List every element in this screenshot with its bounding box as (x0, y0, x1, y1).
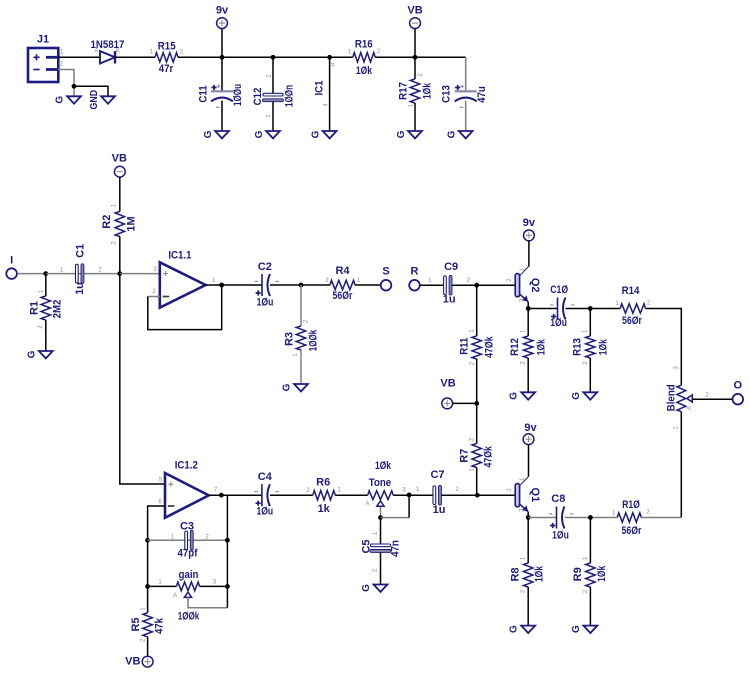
ground (571, 625, 597, 633)
wire C12 bottom lead (272, 102, 274, 132)
pin labels Blend (674, 366, 710, 430)
wire R15 to R16 (178, 56, 353, 58)
svg-text:1Øk: 1Øk (356, 65, 373, 77)
pin labels R6 (306, 488, 341, 495)
svg-text:2M2: 2M2 (51, 300, 63, 319)
svg-text:1Øk: 1Øk (375, 460, 392, 472)
svg-text:47Øk: 47Øk (483, 445, 495, 467)
svg-text:1ØØn: 1ØØn (284, 85, 296, 107)
junction C8 R9 node (588, 515, 593, 520)
junction R7 C7 node (475, 493, 480, 498)
svg-text:R2: R2 (101, 215, 113, 229)
resistor R13 (571, 336, 609, 358)
pin labels R11 (469, 329, 475, 366)
wire R17 top lead (414, 57, 416, 79)
wire C13 bottom lead (465, 101, 467, 131)
wire C12 top lead (272, 57, 274, 94)
wire R5 to VB (147, 637, 149, 656)
node R port (409, 266, 420, 291)
wire R6 to Tone (335, 494, 368, 496)
svg-text:R1: R1 (29, 301, 41, 315)
pin labels R4 (325, 278, 361, 284)
svg-text:gain: gain (179, 569, 199, 581)
svg-text:1u: 1u (433, 504, 446, 516)
svg-text:VB: VB (112, 152, 127, 164)
svg-text:S: S (382, 266, 389, 278)
wire IC1.1 feedback (148, 285, 222, 330)
svg-text:1Øu: 1Øu (550, 317, 567, 329)
potentiometer Blend (666, 384, 693, 411)
junction IC1.2 out (219, 493, 224, 498)
pin labels R2 (112, 203, 118, 245)
svg-text:VB: VB (125, 655, 140, 667)
svg-text:1u: 1u (74, 282, 86, 295)
wire IC1.1 out (206, 284, 262, 286)
svg-text:47r: 47r (159, 63, 174, 75)
pin labels R17 (409, 73, 425, 108)
resistor R10 (617, 499, 642, 537)
svg-text:47n: 47n (389, 540, 401, 557)
ground (509, 392, 536, 400)
ground (254, 130, 280, 138)
wire I port to R1 node (17, 273, 46, 275)
svg-text:VB: VB (440, 378, 455, 390)
svg-text:1Øu: 1Øu (257, 296, 274, 308)
wire C4 to R6 (270, 494, 313, 496)
wire 9v drop (221, 29, 223, 58)
svg-text:A: A (94, 49, 98, 55)
svg-text:9v: 9v (216, 5, 229, 17)
wire R8 bottom lead (527, 587, 529, 626)
junction VB rail (413, 55, 418, 60)
transistor Q2 (515, 267, 541, 302)
wire Q2 base node to R11 (476, 285, 478, 336)
resistor R15 (155, 40, 178, 75)
wire Q2 emitter stub (527, 302, 529, 309)
wire C13 drop (465, 57, 467, 90)
svg-text:C5: C5 (361, 539, 373, 553)
svg-text:Tone: Tone (369, 477, 391, 489)
svg-text:C3: C3 (180, 520, 194, 532)
power VB (407, 5, 422, 29)
ground (571, 392, 597, 400)
capacitor C4 (254, 471, 279, 517)
wire wiper loop right (381, 517, 410, 519)
wire R14 to Blend (646, 309, 682, 386)
pin labels R9 (583, 556, 589, 593)
wire Tone to C7 (393, 494, 433, 496)
transistor Q1 (515, 477, 541, 512)
wire R9 bottom lead (589, 587, 591, 626)
wire VB to R2 (119, 177, 121, 211)
resistor R17 (398, 79, 434, 103)
svg-text:G: G (55, 96, 66, 104)
junction VB node (474, 401, 479, 406)
svg-text:Q2: Q2 (529, 278, 541, 293)
wire J1+ to D1 (58, 56, 100, 58)
wire Blend to R10 corner (680, 412, 682, 518)
junction Q1 emitter node (526, 515, 531, 520)
svg-text:56Ør: 56Ør (333, 290, 353, 302)
svg-text:R3: R3 (284, 332, 296, 346)
svg-text:C7: C7 (430, 469, 444, 481)
op-amp IC1.1 (160, 250, 206, 308)
svg-text:R5: R5 (130, 617, 142, 631)
junction C3 left (145, 538, 150, 543)
svg-text:G: G (396, 130, 407, 138)
pin labels Q2 (507, 267, 526, 302)
pin labels R12 (521, 329, 527, 365)
junction input node (117, 271, 122, 276)
wire C5 bottom lead (380, 552, 382, 584)
pin labels R16 (348, 49, 381, 56)
svg-text:A: A (173, 593, 177, 599)
junction C10 R13 node (588, 306, 593, 311)
capacitor C7 (430, 469, 445, 516)
svg-text:A: A (365, 502, 369, 508)
svg-text:1Øk: 1Øk (598, 338, 610, 355)
ground (311, 130, 337, 138)
resistor R3 (284, 326, 320, 351)
ground (101, 96, 115, 103)
svg-text:C9: C9 (444, 261, 458, 273)
wire C7 to Q1 base (442, 494, 516, 496)
svg-text:G: G (361, 584, 372, 592)
resistor R2 (101, 212, 137, 237)
svg-text:9v: 9v (523, 217, 536, 229)
pin labels R10 (612, 510, 651, 517)
junction Q2 emitter node (526, 306, 531, 311)
svg-text:I: I (10, 254, 13, 266)
svg-text:G: G (311, 130, 322, 138)
svg-text:G: G (254, 130, 265, 138)
svg-text:K: K (116, 49, 120, 55)
wire Blend wiper to O (692, 398, 732, 400)
svg-text:VB: VB (407, 5, 422, 17)
svg-text:J1: J1 (37, 34, 49, 46)
ground (55, 96, 81, 104)
junction gain left (145, 584, 150, 589)
svg-text:56Ør: 56Ør (622, 525, 642, 537)
wire Q2 emitter to C10 (528, 308, 557, 310)
pin labels IC1 (324, 62, 337, 107)
svg-text:Q1: Q1 (529, 488, 541, 503)
pin labels R8 (521, 556, 527, 593)
wire gain right down (226, 586, 228, 607)
wire node down to IC1.2 +in (120, 274, 165, 484)
svg-text:R: R (411, 266, 419, 278)
pin labels R13 (583, 329, 589, 365)
power VB (440, 378, 455, 409)
svg-text:R17: R17 (398, 82, 410, 100)
svg-text:C1: C1 (75, 244, 87, 258)
node I port (6, 254, 17, 279)
capacitor C1 (74, 244, 86, 295)
svg-text:R14: R14 (622, 285, 641, 297)
svg-text:1k: 1k (317, 503, 330, 515)
resistor R4 (330, 265, 355, 302)
resistor R11 (458, 336, 495, 359)
junction C12 rail (271, 55, 276, 60)
pin labels R3 (293, 319, 310, 357)
wire R13 bottom lead (589, 358, 591, 392)
node O port (733, 379, 744, 404)
resistor R1 (29, 296, 64, 320)
svg-text:IC1.1: IC1.1 (168, 250, 191, 262)
svg-text:C13: C13 (441, 85, 453, 103)
pin labels C12 (266, 74, 273, 118)
wire IC1.1 -in left (148, 296, 160, 298)
svg-text:C4: C4 (258, 471, 273, 483)
resistor R12 (509, 336, 547, 358)
pin labels R15 (150, 50, 184, 56)
pin labels R14 (615, 301, 651, 308)
wire R12 top lead (527, 309, 529, 337)
svg-text:G: G (203, 130, 214, 138)
junction IC1 rail (327, 55, 332, 60)
wire C2 to R4 node (270, 284, 330, 286)
svg-text:R6: R6 (316, 476, 330, 488)
svg-text:1Øk: 1Øk (533, 565, 545, 582)
svg-text:C2: C2 (258, 261, 272, 273)
wire out branch down (226, 495, 228, 540)
svg-text:R13: R13 (571, 338, 583, 356)
junction wiper C5 (378, 515, 383, 520)
wire Tone wiper drop (380, 507, 382, 518)
op-amp IC1.2 (165, 460, 209, 518)
svg-text:R9: R9 (572, 567, 584, 581)
power 9v (523, 422, 537, 445)
svg-text:C8: C8 (551, 493, 565, 505)
wire gain wiper loop (188, 597, 227, 607)
svg-text:R15: R15 (158, 40, 176, 52)
wire C3 line (148, 539, 228, 541)
power VB (112, 152, 127, 177)
capacitor C10 (550, 284, 575, 329)
svg-text:1ØØk: 1ØØk (178, 611, 200, 623)
ground GND label (89, 90, 100, 110)
pin labels C3 (171, 534, 210, 540)
wire to GND symbol (74, 86, 108, 96)
pin labels IC1.1 (152, 267, 216, 295)
svg-text:G: G (571, 392, 582, 400)
wire J1- to ground node (58, 70, 74, 97)
svg-text:1Øu: 1Øu (552, 530, 569, 542)
capacitor C13 (441, 85, 489, 108)
wire R10 to corner (641, 517, 681, 519)
ground (26, 350, 52, 358)
potentiometer gain (173, 569, 200, 623)
svg-text:47pf: 47pf (178, 547, 198, 559)
junction gain right (225, 584, 230, 589)
svg-text:1Øu: 1Øu (256, 506, 273, 518)
pin labels J1 (60, 50, 64, 68)
ground (361, 584, 387, 592)
wire R17 bottom lead (414, 103, 416, 131)
svg-text:1Øk: 1Øk (422, 82, 434, 99)
svg-text:1Øk: 1Øk (536, 338, 548, 355)
connector J1 (28, 34, 58, 83)
wire R4 to S (355, 284, 381, 286)
wire C8 to R9 node (565, 517, 618, 519)
pin labels R7 (469, 437, 475, 472)
wire VB node to R7 (476, 403, 478, 443)
ground (396, 130, 422, 138)
svg-text:1ØØu: 1ØØu (232, 84, 244, 106)
svg-text:1M: 1M (125, 216, 137, 231)
wire Q1 emitter stub (527, 512, 529, 518)
wire D1 to R15 (115, 56, 155, 58)
ground (447, 130, 473, 138)
wire R3 bottom lead (300, 350, 302, 384)
pin labels R1 (38, 289, 45, 329)
capacitor C12 (252, 85, 296, 107)
wire R8 top lead (527, 518, 529, 564)
svg-text:G: G (282, 383, 293, 391)
IC U1 power IC1 (314, 57, 330, 131)
capacitor C3 (178, 520, 198, 559)
wire R9 top lead (589, 518, 591, 564)
svg-text:56Ør: 56Ør (622, 315, 642, 327)
junction ground node (72, 84, 77, 89)
wire C3 right down (226, 540, 228, 586)
svg-text:G: G (447, 130, 458, 138)
potentiometer Tone (365, 460, 393, 508)
capacitor C5 (361, 539, 402, 556)
wire loop up (408, 495, 410, 518)
wire gain left lead (148, 585, 177, 587)
junction C2 R3 node (299, 283, 304, 288)
svg-text:IC1: IC1 (314, 80, 326, 95)
svg-text:47u: 47u (476, 86, 488, 103)
wire R1 bottom lead (45, 320, 47, 351)
wire 9v to Q2 collector (528, 241, 530, 267)
wire C5 top lead (380, 518, 382, 545)
svg-text:47Øk: 47Øk (484, 336, 496, 358)
diode D1 1N5817 (91, 39, 125, 64)
pin labels C9 (428, 278, 471, 284)
wire R5 top lead (147, 586, 149, 612)
pin labels D1 (94, 49, 120, 55)
pin labels C5 (373, 531, 379, 572)
ground (282, 383, 308, 391)
svg-text:C12: C12 (252, 88, 264, 106)
wire C11 bottom lead (221, 101, 223, 131)
svg-text:R7: R7 (459, 449, 471, 463)
wire R1 node to C1 to main node (46, 273, 120, 275)
svg-text:G: G (509, 625, 520, 633)
resistor R7 (459, 444, 495, 468)
ground (509, 625, 536, 633)
svg-text:Blend: Blend (666, 384, 678, 411)
wire gain right lead (200, 585, 228, 587)
resistor R5 (130, 613, 165, 637)
resistor R8 (509, 563, 545, 587)
power 9v (523, 217, 536, 241)
svg-text:A: A (687, 406, 693, 410)
wire R2 to node (119, 237, 121, 274)
svg-text:GND: GND (89, 90, 100, 110)
wire 9v to Q1 collector (528, 445, 530, 477)
svg-text:O: O (734, 379, 743, 391)
capacitor C9 (443, 261, 458, 305)
svg-text:47k: 47k (153, 617, 165, 634)
resistor R16 (353, 39, 375, 77)
svg-text:C11: C11 (198, 85, 210, 102)
svg-text:R16: R16 (355, 39, 373, 51)
wire C9 to Q2 base (452, 284, 515, 286)
pin labels IC1.2 (158, 478, 218, 506)
wire C11 top lead (221, 57, 223, 90)
pin labels Q1 (507, 477, 526, 512)
wire C10 to R13 node (566, 308, 621, 310)
junction 9v rail (220, 55, 225, 60)
junction IC1.1 out (219, 283, 224, 288)
svg-text:R1Ø: R1Ø (622, 499, 640, 511)
wire IC1.2 -in left (148, 506, 165, 586)
wire R13 top lead (589, 309, 591, 337)
pin labels C7 (416, 487, 460, 493)
resistor R14 (620, 285, 645, 327)
wire node to IC1.1 +in (120, 273, 160, 275)
wire R1 top lead (45, 274, 47, 296)
wire Q1 emitter to C8 (528, 517, 556, 519)
pin labels Tone (402, 488, 406, 494)
pin labels gain (158, 580, 217, 586)
svg-text:R12: R12 (509, 338, 521, 356)
wire VB to node (453, 402, 477, 404)
power 9v (216, 5, 229, 29)
svg-text:G: G (571, 625, 582, 633)
wire R16 to VB node (375, 56, 466, 58)
junction R1 node (43, 271, 48, 276)
svg-text:1u: 1u (443, 293, 456, 305)
svg-text:IC1.2: IC1.2 (175, 460, 198, 472)
svg-text:1Øk: 1Øk (596, 565, 608, 582)
power VB (125, 655, 153, 667)
svg-text:G: G (26, 350, 37, 358)
svg-text:C1Ø: C1Ø (550, 284, 568, 296)
wire R7 to Q1 base line (476, 468, 478, 496)
capacitor C2 (255, 261, 280, 309)
svg-text:G: G (509, 392, 520, 400)
wire R11 to VB node (476, 359, 478, 403)
ground (203, 130, 229, 138)
svg-text:R11: R11 (458, 338, 470, 355)
pin labels C1 (60, 267, 102, 273)
wire R12 bottom lead (527, 358, 529, 392)
svg-text:1ØØk: 1ØØk (307, 329, 319, 351)
node S port (381, 266, 392, 291)
capacitor C8 (549, 493, 574, 542)
resistor R6 (313, 476, 335, 514)
svg-text:R4: R4 (335, 265, 350, 277)
wire R port to C9 (420, 284, 444, 286)
wire IC1.2 out (209, 494, 262, 496)
svg-text:R8: R8 (509, 567, 521, 581)
junction Q2 base node (474, 283, 479, 288)
capacitor C11 (198, 84, 245, 107)
junction Tone right (407, 493, 412, 498)
pin labels R5 (140, 607, 146, 643)
svg-text:9v: 9v (524, 422, 537, 434)
wire VB drop (414, 29, 416, 58)
junction C3 right (225, 538, 230, 543)
resistor R9 (572, 563, 608, 587)
wire R3 top lead (300, 285, 302, 326)
